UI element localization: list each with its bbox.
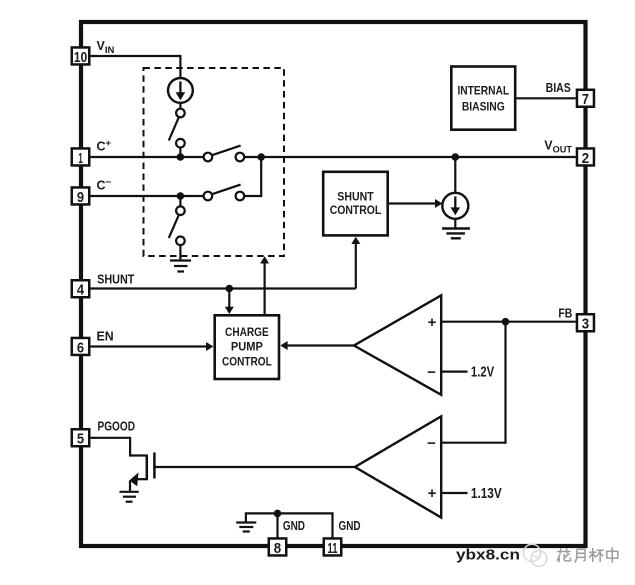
svg-text:PUMP: PUMP: [231, 340, 263, 354]
wire C- line from pin 9: [91, 195, 204, 197]
block INTERNAL BIASING: [451, 67, 515, 130]
svg-text:GND: GND: [283, 519, 305, 533]
svg-text:SHUNT: SHUNT: [97, 273, 135, 287]
wire/arrow SHUNT CONTROL to I2: [389, 199, 442, 208]
wire A2 output to Q1 gate: [155, 466, 355, 468]
pin 5: [72, 429, 90, 447]
wire from S2 to VOUT rail: [244, 156, 576, 158]
wire from VOUT rail down to shunt current source: [454, 157, 456, 194]
svg-text:4: 4: [77, 283, 84, 299]
ground at pins 8/11: [236, 523, 256, 532]
switch S2 (C+ to VOUT node): [204, 146, 245, 162]
block SHUNT CONTROL: [323, 172, 388, 236]
switch S4 (C- to ground): [169, 196, 185, 260]
svg-text:1: 1: [78, 151, 83, 167]
svg-text:CONTROL: CONTROL: [222, 354, 272, 368]
watermark smiley logo: [523, 544, 546, 566]
svg-text:SHUNT: SHUNT: [337, 191, 373, 203]
pin 4: [72, 280, 90, 298]
wire FB node down to A2 - input: [441, 322, 505, 443]
svg-text:7: 7: [582, 92, 589, 108]
pin 1: [72, 148, 90, 166]
wire 1.2V reference stub: [441, 371, 467, 373]
svg-text:1.13V: 1.13V: [471, 486, 502, 502]
comparator A2 (PGOOD, vs 1.13V): [355, 416, 441, 517]
svg-text:1.2V: 1.2V: [471, 365, 495, 381]
svg-text:C+: C+: [97, 138, 112, 154]
wire/arrow SHUNT line down into CHARGE PUMP CONTROL: [225, 289, 234, 315]
node junction on FB line: [502, 318, 510, 326]
pin 7: [577, 90, 594, 108]
pin 6: [72, 338, 90, 356]
wire I2 to ground: [454, 218, 456, 227]
block CHARGE PUMP CONTROL: [215, 315, 279, 379]
wire SHUNT from pin 4: [91, 287, 356, 289]
wire to ground symbol: [246, 513, 278, 521]
ground at Q1 source: [120, 492, 139, 502]
node junction on C- at x=180: [177, 192, 185, 200]
svg-text:−: −: [427, 435, 436, 452]
wire pin 8 / pin 11 ground bus: [278, 513, 333, 538]
pin 3: [577, 314, 594, 332]
dashed box (charge pump switch network): [144, 68, 285, 256]
wire C+ line from pin 1 through switches to pin 2 (VOUT): [91, 156, 204, 158]
svg-text:3: 3: [582, 317, 589, 333]
svg-text:EN: EN: [97, 329, 114, 343]
svg-text:−: −: [427, 364, 436, 381]
current source I1 (from VIN): [168, 78, 193, 103]
svg-text:8: 8: [274, 541, 281, 557]
wire EN from pin 6 with arrow into CPC: [91, 342, 214, 351]
switch S1 (I1 to C+ node): [169, 103, 185, 158]
svg-text:6: 6: [77, 340, 84, 356]
switch S3 (C- to VOUT node): [204, 185, 245, 201]
wire PGOOD from pin 5 to Q1 drain: [91, 438, 146, 456]
svg-text:FB: FB: [558, 306, 572, 320]
node junction at VOUT current source tap: [452, 153, 460, 161]
outer IC boundary box: [81, 22, 586, 546]
ground below I2: [442, 229, 470, 239]
svg-text:10: 10: [74, 50, 88, 66]
transistor Q1 (PGOOD pulldown MOSFET): [129, 453, 154, 492]
svg-text:CONTROL: CONTROL: [330, 205, 382, 217]
svg-text:PGOOD: PGOOD: [98, 419, 136, 433]
svg-text:VIN: VIN: [97, 39, 115, 56]
svg-text:C−: C−: [97, 177, 112, 193]
svg-text:+: +: [428, 485, 437, 502]
svg-text:2: 2: [582, 151, 589, 167]
node junction above pin 8: [274, 510, 282, 518]
svg-text:5: 5: [77, 432, 84, 448]
wire/arrow CHARGE PUMP CONTROL up to switch network: [260, 256, 269, 314]
pin 10: [72, 47, 90, 65]
wire/arrow SHUNT line up into SHUNT CONTROL: [351, 237, 360, 289]
svg-text:CHARGE: CHARGE: [225, 325, 269, 339]
node junction on C+ at x=180: [177, 153, 185, 161]
svg-text:ybx8.cn: ybx8.cn: [456, 547, 520, 564]
svg-text:11: 11: [328, 541, 338, 557]
wire cross-connect from C+ switch node down to C- switch: [244, 157, 261, 196]
wire FB line from A1 + input to pin 3: [441, 321, 576, 323]
comparator A1 (FB vs 1.2V): [354, 295, 441, 395]
wire VIN from pin 10 to current source: [91, 56, 181, 79]
svg-text:+: +: [428, 314, 437, 331]
pin 8: [269, 538, 287, 556]
pin 2: [577, 148, 594, 166]
wire BIAS to pin 7: [517, 97, 576, 99]
svg-text:INTERNAL: INTERNAL: [457, 83, 509, 97]
watermark chinese characters "hua yue bei zhong": [557, 547, 618, 563]
node junction on SHUNT line: [226, 285, 234, 293]
svg-text:BIAS: BIAS: [546, 81, 571, 95]
wire 1.13V reference stub: [441, 492, 467, 494]
pin 9: [72, 187, 90, 205]
wire comparator A1 output to CPC with arrow: [280, 341, 354, 350]
current source I2 (shunt at VOUT): [442, 193, 468, 219]
svg-text:GND: GND: [339, 519, 361, 533]
ground below S4: [170, 261, 191, 272]
svg-text:9: 9: [77, 190, 84, 206]
svg-text:BIASING: BIASING: [462, 100, 505, 114]
node junction at x=261: [257, 153, 265, 161]
pin 11: [324, 538, 342, 556]
svg-text:VOUT: VOUT: [544, 138, 572, 155]
